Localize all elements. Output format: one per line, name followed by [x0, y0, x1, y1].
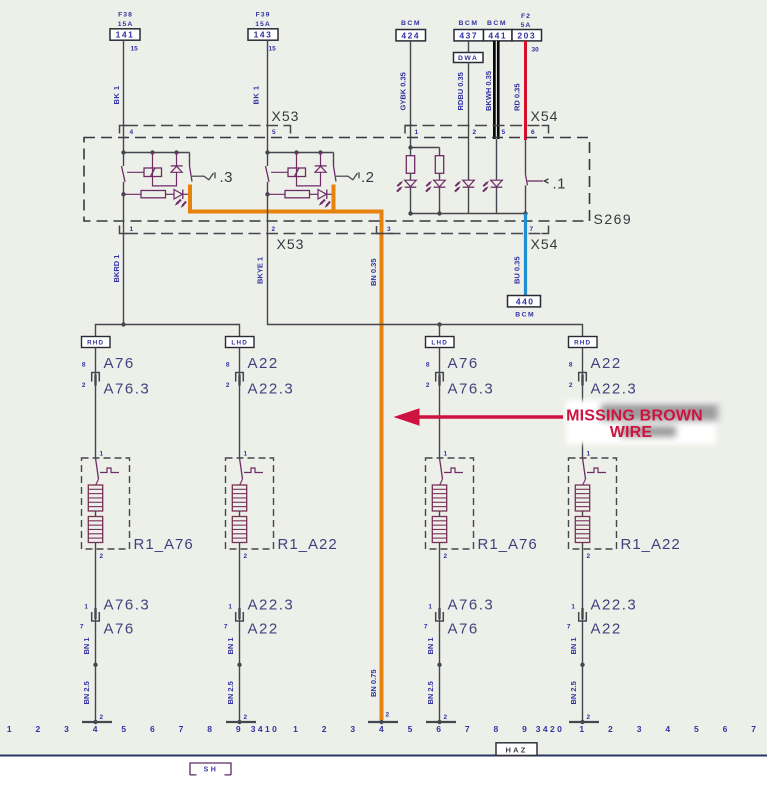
svg-text:1: 1 [100, 451, 104, 458]
ground of orange wire [368, 712, 398, 725]
svg-text:2: 2 [272, 226, 276, 233]
svg-text:6: 6 [150, 724, 155, 734]
svg-text:BCM: BCM [515, 312, 535, 319]
svg-text:BN 0.35: BN 0.35 [369, 258, 378, 286]
svg-text:A76: A76 [448, 355, 479, 372]
svg-text:RHD: RHD [574, 340, 591, 347]
svg-text:4: 4 [665, 724, 670, 734]
heated washer jet R1_A22 dashed box column 2 [226, 458, 274, 549]
svg-text:1: 1 [293, 724, 298, 734]
svg-text:5: 5 [272, 129, 276, 136]
ground column 2 [226, 714, 256, 724]
connector A22.3 pin 2 column 2 [226, 381, 294, 398]
svg-text:X53: X53 [277, 236, 305, 252]
svg-text:3420: 3420 [536, 724, 565, 734]
fuse F39 15A [255, 12, 270, 29]
wire column 3 to lower connector [439, 560, 441, 722]
svg-text:BCM: BCM [487, 20, 507, 27]
connector A76.3 pin 2 column 3 [426, 381, 494, 398]
svg-text:2: 2 [100, 553, 104, 560]
svg-text:8: 8 [426, 362, 430, 369]
connector A22 pin 8 column 4 [569, 355, 622, 372]
connector A22.3 pin 2 column 4 [569, 381, 637, 398]
svg-text:15: 15 [131, 46, 139, 53]
svg-text:X53: X53 [272, 108, 300, 124]
connector A22.3 pin 1 lower column 2 [228, 597, 294, 614]
blue wire BU 0.35 from pin 7 to BCM 440 [513, 214, 526, 296]
svg-text:A76.3: A76.3 [104, 597, 151, 614]
distribution bus right [268, 234, 583, 337]
wire BKRD 1 from X53 pin 1 [112, 194, 124, 324]
annotation highlight [566, 400, 718, 444]
svg-text:8: 8 [226, 362, 230, 369]
svg-text:R1_A22: R1_A22 [278, 536, 338, 553]
svg-text:R1_A76: R1_A76 [134, 536, 194, 553]
svg-text:3: 3 [64, 724, 69, 734]
svg-text:2: 2 [244, 553, 248, 560]
svg-text:1: 1 [7, 724, 12, 734]
resistor R left [406, 156, 414, 181]
svg-text:1: 1 [444, 451, 448, 458]
inline connector symbol lower column 3 [436, 612, 444, 621]
svg-text:1: 1 [428, 604, 432, 611]
svg-text:BN 1: BN 1 [226, 637, 235, 654]
svg-text:RDBU 0.35: RDBU 0.35 [456, 72, 465, 110]
svg-text:3: 3 [637, 724, 642, 734]
thermal switch inside R1_A76 column 1 [96, 458, 120, 486]
inline connector symbol column 2 [236, 373, 244, 382]
svg-text:5: 5 [502, 129, 506, 136]
svg-text:.1: .1 [553, 176, 567, 193]
svg-text:A76: A76 [104, 621, 135, 638]
coordinate grid numbers [7, 724, 757, 734]
svg-text:F39: F39 [256, 12, 271, 19]
svg-text:7: 7 [80, 624, 84, 631]
heater resistor 2 of R1_A22 column 4 [575, 517, 589, 561]
splice column 1 [93, 663, 97, 667]
inline connector symbol column 1 [92, 373, 100, 382]
svg-text:R1_A76: R1_A76 [478, 536, 538, 553]
terminal box 143 [248, 29, 278, 53]
resistor R right [435, 156, 443, 181]
svg-text:A22.3: A22.3 [591, 381, 638, 398]
svg-text:15: 15 [269, 46, 277, 53]
svg-text:A76.3: A76.3 [448, 381, 495, 398]
svg-text:2: 2 [473, 129, 477, 136]
ground column 4 [569, 714, 599, 724]
svg-text:6: 6 [436, 724, 441, 734]
svg-text:6: 6 [723, 724, 728, 734]
inline connector symbol lower column 1 [92, 612, 100, 621]
terminal box 203 [512, 30, 542, 54]
illumination resistor branch from X54 pin 1 [408, 126, 439, 156]
svg-text:BCM: BCM [401, 20, 421, 27]
svg-text:BN 1: BN 1 [569, 637, 578, 654]
svg-text:7: 7 [465, 724, 470, 734]
svg-text:7: 7 [224, 624, 228, 631]
svg-text:S269: S269 [594, 211, 633, 227]
orange wire BN from relay outputs down to ground [190, 185, 382, 721]
svg-text:1: 1 [84, 604, 88, 611]
wire BK 1 from fuse F39 to X53 pin 5 [252, 40, 268, 125]
switch module S269 dashed box [84, 138, 632, 228]
wire BK 1 from fuse F38 to X53 pin 4 [112, 40, 124, 125]
heater resistor 2 of R1_A22 column 2 [232, 517, 246, 561]
svg-text:A22.3: A22.3 [591, 597, 638, 614]
relay switch .3 of S269 [121, 125, 233, 208]
svg-text:A22: A22 [591, 621, 622, 638]
svg-text:BN 2.5: BN 2.5 [426, 681, 435, 704]
svg-text:15A: 15A [255, 21, 270, 28]
harness box RHD column 1 [82, 337, 111, 348]
svg-text:15A: 15A [118, 21, 133, 28]
svg-text:A76: A76 [104, 355, 135, 372]
svg-text:143: 143 [254, 30, 273, 40]
svg-text:1: 1 [415, 129, 419, 136]
harness box LHD column 2 [226, 337, 255, 348]
svg-text:BKYE 1: BKYE 1 [256, 257, 265, 284]
svg-text:BK 1: BK 1 [112, 85, 121, 104]
svg-text:9: 9 [522, 724, 527, 734]
ground column 1 [82, 714, 112, 724]
svg-text:424: 424 [401, 30, 420, 40]
svg-text:.2: .2 [361, 169, 375, 186]
svg-text:2: 2 [426, 382, 430, 389]
heater resistor 1 of R1_A76 column 3 [432, 485, 446, 517]
LED 4 [483, 180, 502, 213]
svg-text:A76.3: A76.3 [104, 381, 151, 398]
connector A76 pin 8 column 1 [82, 355, 135, 372]
connector A22 pin 7 lower column 4 [567, 621, 622, 638]
svg-text:RHD: RHD [87, 340, 104, 347]
svg-text:BN 2.5: BN 2.5 [226, 681, 235, 704]
pin 2 and label R1_A22 column 2 [244, 536, 338, 560]
connector A76 pin 7 lower column 3 [424, 621, 479, 638]
bus inside S269 to pin 7 [408, 211, 527, 215]
svg-text:LHD: LHD [431, 340, 448, 347]
svg-text:1: 1 [587, 451, 591, 458]
svg-text:BN 0.75: BN 0.75 [369, 669, 378, 697]
svg-text:A22.3: A22.3 [248, 597, 295, 614]
splice column 4 [580, 663, 584, 667]
svg-text:2: 2 [386, 712, 390, 719]
wire GYBK 0.35 to X54 pin 1 [399, 41, 411, 126]
svg-text:7: 7 [751, 724, 756, 734]
red wire RD 0.35 terminal 30 to X54 pin 6 [513, 41, 526, 140]
inline connector symbol lower column 4 [579, 612, 587, 621]
thermal switch inside R1_A22 column 2 [240, 458, 264, 486]
svg-text:F2: F2 [521, 13, 531, 20]
hazard switch contact .1 [526, 140, 567, 214]
svg-text:2: 2 [82, 382, 86, 389]
svg-text:MISSING BROWN: MISSING BROWN [566, 408, 703, 425]
svg-text:A22: A22 [248, 621, 279, 638]
connector A76 pin 7 lower column 1 [80, 621, 135, 638]
wire RDBU 0.35 to X54 pin 2 [456, 41, 469, 126]
connector A22 pin 8 column 2 [226, 355, 279, 372]
wire column 2 from LHD to resistor unit [239, 348, 241, 459]
splice column 2 [237, 663, 241, 667]
svg-text:3: 3 [350, 724, 355, 734]
harness box RHD column 4 [569, 337, 598, 348]
svg-text:1: 1 [244, 451, 248, 458]
svg-text:2: 2 [587, 714, 591, 721]
DWA box [454, 53, 484, 63]
svg-text:437: 437 [459, 30, 478, 40]
splice column 3 [437, 663, 441, 667]
svg-text:A76.3: A76.3 [448, 597, 495, 614]
svg-text:R1_A22: R1_A22 [621, 536, 681, 553]
svg-text:X54: X54 [531, 108, 559, 124]
svg-text:8: 8 [207, 724, 212, 734]
wire from X54 pin 2 to LED 3 [468, 126, 470, 181]
pin 2 and label R1_A76 column 3 [444, 536, 538, 560]
svg-text:BCM: BCM [459, 20, 479, 27]
svg-text:DWA: DWA [458, 55, 478, 62]
fuse F38 15A [118, 12, 133, 29]
svg-text:2: 2 [444, 553, 448, 560]
svg-text:BN 2.5: BN 2.5 [569, 681, 578, 704]
svg-text:1: 1 [130, 226, 134, 233]
svg-text:4: 4 [93, 724, 98, 734]
svg-text:9: 9 [236, 724, 241, 734]
svg-text:2: 2 [244, 714, 248, 721]
heater resistor 1 of R1_A22 column 2 [232, 485, 246, 517]
ground column 3 [426, 714, 456, 724]
svg-text:440: 440 [516, 296, 535, 306]
heater resistor 2 of R1_A76 column 1 [88, 517, 102, 561]
connector A76.3 pin 1 lower column 1 [84, 597, 150, 614]
svg-text:2: 2 [608, 724, 613, 734]
inline connector symbol column 3 [436, 373, 444, 382]
LED 3 [455, 180, 474, 213]
svg-text:WIRE: WIRE [610, 424, 653, 441]
wire column 1 from RHD to resistor unit [95, 348, 97, 459]
HAZ box [496, 743, 537, 756]
svg-text:1: 1 [579, 724, 584, 734]
svg-text:7: 7 [567, 624, 571, 631]
svg-text:HAZ: HAZ [505, 746, 527, 755]
annotation text MISSING BROWN WIRE [566, 408, 703, 442]
svg-text:GYBK 0.35: GYBK 0.35 [399, 72, 408, 110]
svg-text:BKWH 0.35: BKWH 0.35 [484, 71, 493, 111]
svg-text:7: 7 [424, 624, 428, 631]
pin 2 and label R1_A22 column 4 [587, 536, 681, 560]
svg-text:RD 0.35: RD 0.35 [513, 83, 522, 111]
thick black wire BKWH 0.35 to X54 pin 5 [484, 41, 496, 139]
wire column 4 to lower connector [582, 560, 584, 722]
svg-text:A22: A22 [248, 355, 279, 372]
svg-text:2: 2 [35, 724, 40, 734]
svg-text:2: 2 [226, 382, 230, 389]
terminal box 141 [110, 29, 140, 53]
wire column 3 from LHD to resistor unit [439, 348, 441, 459]
svg-text:30: 30 [532, 47, 540, 54]
svg-text:X54: X54 [531, 236, 559, 252]
svg-text:7: 7 [530, 226, 534, 233]
pin 2 and label R1_A76 column 1 [100, 536, 194, 560]
svg-text:5: 5 [694, 724, 699, 734]
heated washer jet R1_A22 dashed box column 4 [569, 458, 617, 549]
fuse F2 5A [521, 13, 532, 29]
BCM terminal 424 [396, 20, 426, 41]
svg-text:3: 3 [387, 226, 391, 233]
wire from X54 pin 5 to LED 4 [496, 139, 498, 180]
heater resistor 1 of R1_A76 column 1 [88, 485, 102, 517]
wire column 2 to lower connector [239, 560, 241, 722]
svg-text:2: 2 [100, 714, 104, 721]
svg-text:BN 1: BN 1 [82, 637, 91, 654]
harness box LHD column 3 [426, 337, 455, 348]
heater resistor 2 of R1_A76 column 3 [432, 517, 446, 561]
LED 2 [426, 180, 445, 213]
BCM terminal 441 [484, 20, 513, 41]
SH box [190, 763, 231, 775]
wire column 4 from RHD to resistor unit [582, 348, 584, 459]
svg-text:.3: .3 [220, 169, 234, 186]
svg-text:BN 2.5: BN 2.5 [82, 681, 91, 704]
heated washer jet R1_A76 dashed box column 1 [82, 458, 130, 549]
thermal switch inside R1_A76 column 3 [440, 458, 464, 486]
svg-text:8: 8 [82, 362, 86, 369]
svg-text:203: 203 [517, 30, 536, 40]
svg-text:LHD: LHD [231, 340, 248, 347]
LED 1 [397, 180, 416, 213]
connector A22 pin 7 lower column 2 [224, 621, 279, 638]
thermal switch inside R1_A22 column 4 [583, 458, 607, 486]
connector A76 pin 8 column 3 [426, 355, 479, 372]
svg-text:8: 8 [569, 362, 573, 369]
inline connector symbol lower column 2 [236, 612, 244, 621]
svg-text:4: 4 [379, 724, 384, 734]
svg-text:BU 0.35: BU 0.35 [513, 256, 522, 284]
svg-text:441: 441 [488, 30, 507, 40]
svg-text:2: 2 [587, 553, 591, 560]
svg-text:A22.3: A22.3 [248, 381, 295, 398]
connector X53 bottom [120, 226, 544, 253]
inline connector symbol column 4 [579, 373, 587, 382]
heater resistor 1 of R1_A22 column 4 [575, 485, 589, 517]
connector A76.3 pin 1 lower column 3 [428, 597, 494, 614]
svg-text:1: 1 [228, 604, 232, 611]
svg-text:3410: 3410 [251, 724, 280, 734]
relay switch .2 of S269 [265, 125, 374, 208]
connector A22.3 pin 1 lower column 4 [571, 597, 637, 614]
svg-text:SH: SH [204, 767, 219, 774]
wire BKYE 1 from X53 pin 2 [256, 194, 268, 284]
wire column 1 to lower connector [95, 560, 97, 722]
terminal box 440 BCM [508, 296, 541, 319]
svg-text:A76: A76 [448, 621, 479, 638]
svg-text:2: 2 [322, 724, 327, 734]
connector X54 top [405, 108, 558, 136]
svg-text:BN 1: BN 1 [426, 637, 435, 654]
svg-text:A22: A22 [591, 355, 622, 372]
connector X53 top [120, 108, 300, 136]
svg-text:1: 1 [571, 604, 575, 611]
heated washer jet R1_A76 dashed box column 3 [426, 458, 474, 549]
svg-text:7: 7 [179, 724, 184, 734]
svg-text:141: 141 [116, 30, 135, 40]
connector X54 bottom [530, 226, 559, 253]
svg-text:5A: 5A [521, 22, 532, 29]
svg-text:5: 5 [408, 724, 413, 734]
BCM terminal 437 [454, 20, 484, 41]
svg-text:8: 8 [494, 724, 499, 734]
svg-text:BKRD 1: BKRD 1 [112, 255, 121, 283]
svg-text:2: 2 [444, 714, 448, 721]
svg-text:F38: F38 [118, 12, 133, 19]
svg-text:5: 5 [121, 724, 126, 734]
distribution bus left [96, 322, 240, 336]
svg-text:6: 6 [531, 129, 535, 136]
svg-text:BK 1: BK 1 [252, 85, 261, 104]
svg-text:4: 4 [130, 129, 134, 136]
connector A76.3 pin 2 column 1 [82, 381, 150, 398]
annotation arrow missing brown wire [394, 408, 564, 425]
frame line [0, 755, 767, 757]
svg-text:2: 2 [569, 382, 573, 389]
